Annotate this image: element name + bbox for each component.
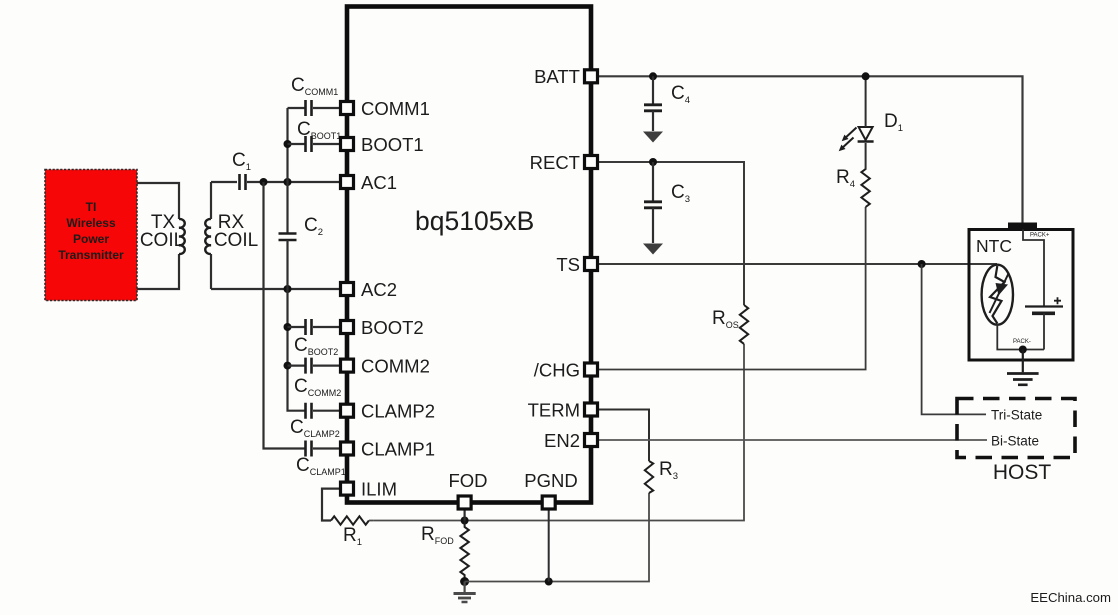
node dot TS/Tri-State branch [918, 260, 926, 268]
svg-text:ILIM: ILIM [361, 479, 397, 500]
pin TERM [585, 403, 598, 416]
pin BOOT2 [341, 321, 354, 334]
pin TS [585, 258, 598, 271]
resistor ROS [740, 305, 748, 344]
capacitor C-BOOT1 [288, 119, 348, 152]
wire terminal to cell [1023, 230, 1044, 306]
svg-text:Tri-State: Tri-State [991, 408, 1042, 423]
svg-text:PGND: PGND [524, 470, 577, 491]
svg-text:TERM: TERM [528, 400, 580, 421]
resistor R1 [331, 516, 369, 524]
svg-text:Transmitter: Transmitter [58, 248, 124, 262]
wire BATT row [591, 76, 1023, 223]
capacitor C1 [232, 150, 251, 190]
svg-text:BOOT1: BOOT1 [361, 134, 424, 155]
wire /CHG to R4 [591, 207, 866, 370]
svg-text:NTC: NTC [976, 236, 1012, 256]
HOST dashed box [957, 399, 1075, 458]
thermistor NTC [982, 265, 1013, 325]
pin COMM1 [341, 102, 354, 115]
svg-text:Power: Power [73, 232, 109, 246]
pin PGND [542, 496, 555, 509]
wire thermistor/cell to pack minus [997, 313, 1044, 349]
capacitor C-CLAMP2 [290, 403, 347, 439]
wire ILIM to R1 [322, 489, 347, 521]
wire AC1-branch vertical to COMM1/BOOT1 caps [286, 108, 288, 182]
node dot AC1/C-CLAMP1 branch [260, 178, 268, 186]
svg-text:CLAMP1: CLAMP1 [361, 439, 435, 460]
wire TS to Tri-State [922, 264, 986, 414]
wire AC2 row [211, 288, 347, 290]
pin CLAMP2 [341, 404, 354, 417]
pin RECT [585, 156, 598, 169]
svg-text:AC1: AC1 [361, 172, 397, 193]
pin AC1 [341, 176, 354, 189]
capacitor C3 [644, 162, 690, 243]
resistor RFOD [460, 521, 468, 582]
svg-text:Bi-State: Bi-State [991, 434, 1039, 449]
NTC battery pack box [969, 230, 1073, 361]
wire LED to BATT row [865, 76, 867, 127]
wire FOD pin lead [464, 503, 466, 521]
svg-text:CLAMP2: CLAMP2 [361, 401, 435, 422]
pin FOD [458, 496, 471, 509]
pin BOOT1 [341, 138, 354, 151]
LED D1 [839, 111, 903, 151]
wire RX top to C1 [211, 181, 237, 183]
wire R1 to RECT-branch (node FOD ext) [373, 344, 744, 521]
svg-text:RECT: RECT [530, 152, 580, 173]
pin /CHG [585, 363, 598, 376]
ground below RFOD [454, 582, 476, 603]
inductor TX COIL [179, 219, 185, 254]
svg-text:BATT: BATT [534, 66, 580, 87]
IC bq5105xB outline [347, 7, 591, 503]
capacitor C-COMM1 [288, 75, 348, 116]
wire EN2 to Bi-State [591, 439, 987, 441]
node dot AC1/C2 branch [284, 178, 292, 186]
ground below C4 [643, 132, 663, 143]
capacitor C-BOOT2 [288, 319, 348, 357]
wire PGND pin lead [548, 503, 550, 582]
pin CLAMP1 [341, 442, 354, 455]
battery pack terminal PACK+ [1008, 223, 1037, 230]
resistor R4 [861, 169, 869, 207]
TI wireless power transmitter box [45, 170, 137, 301]
wire TX loop [137, 183, 179, 289]
svg-text:TS: TS [556, 254, 580, 275]
node dot BOOT2 cap branch [284, 323, 292, 331]
svg-text:AC2: AC2 [361, 279, 397, 300]
node dot RFOD/ground [460, 577, 469, 586]
svg-text:COMM2: COMM2 [361, 356, 430, 377]
capacitor C-CLAMP1 [296, 441, 347, 478]
pin EN2 [585, 434, 598, 447]
wire TS row [591, 263, 997, 265]
svg-text:BOOT2: BOOT2 [361, 317, 424, 338]
svg-text:Wireless: Wireless [66, 216, 116, 230]
svg-text:PACK-: PACK- [1013, 339, 1031, 345]
svg-text:TI: TI [86, 200, 97, 214]
node dot FOD/R1 [461, 517, 469, 525]
svg-text:COMM1: COMM1 [361, 98, 430, 119]
capacitor C-COMM2 [288, 358, 348, 398]
inductor RX COIL [205, 219, 211, 254]
node dot BATT/D1 [862, 72, 870, 80]
svg-text:bq5105xB: bq5105xB [415, 206, 534, 236]
node dot PGND/gnd row [545, 578, 553, 586]
pin AC2 [341, 283, 354, 296]
svg-text:COIL: COIL [140, 230, 184, 251]
wire R4 to LED [865, 143, 867, 169]
node dot PACK- [1019, 346, 1027, 354]
node dot AC2/C2 [284, 285, 292, 293]
pin BATT [585, 70, 598, 83]
wire R3 to TERM [591, 410, 649, 462]
ground below battery box [1007, 350, 1039, 385]
ground below C3 [643, 244, 663, 255]
wire AC2-branch vertical to BOOT2/COMM2/CLAMP2 caps [288, 289, 306, 411]
wire RX loop verticals [210, 182, 212, 289]
wire bottom gnd row to R3 [465, 493, 649, 582]
pin COMM2 [341, 359, 354, 372]
wire C1 to AC1 pin (node AC1) [247, 181, 347, 183]
capacitor C4 [644, 76, 690, 131]
svg-text:/CHG: /CHG [534, 360, 580, 381]
svg-text:EN2: EN2 [544, 430, 580, 451]
battery cell [1025, 297, 1063, 313]
node dot BATT/C4 [649, 72, 657, 80]
wire RECT row [591, 162, 744, 305]
svg-text:COIL: COIL [214, 230, 258, 251]
resistor R3 [645, 461, 653, 493]
node dot COMM2 cap branch [284, 362, 292, 370]
svg-text:PACK+: PACK+ [1030, 233, 1050, 239]
svg-text:FOD: FOD [448, 470, 487, 491]
node dot RECT/C3 [649, 158, 657, 166]
svg-text:HOST: HOST [993, 461, 1052, 484]
svg-text:EEChina.com: EEChina.com [1030, 590, 1111, 605]
capacitor C2 [279, 182, 324, 289]
wire AC1-branch vertical to CLAMP1 cap [264, 182, 306, 449]
pin ILIM [341, 482, 354, 495]
node dot BOOT1 cap branch [284, 140, 292, 148]
